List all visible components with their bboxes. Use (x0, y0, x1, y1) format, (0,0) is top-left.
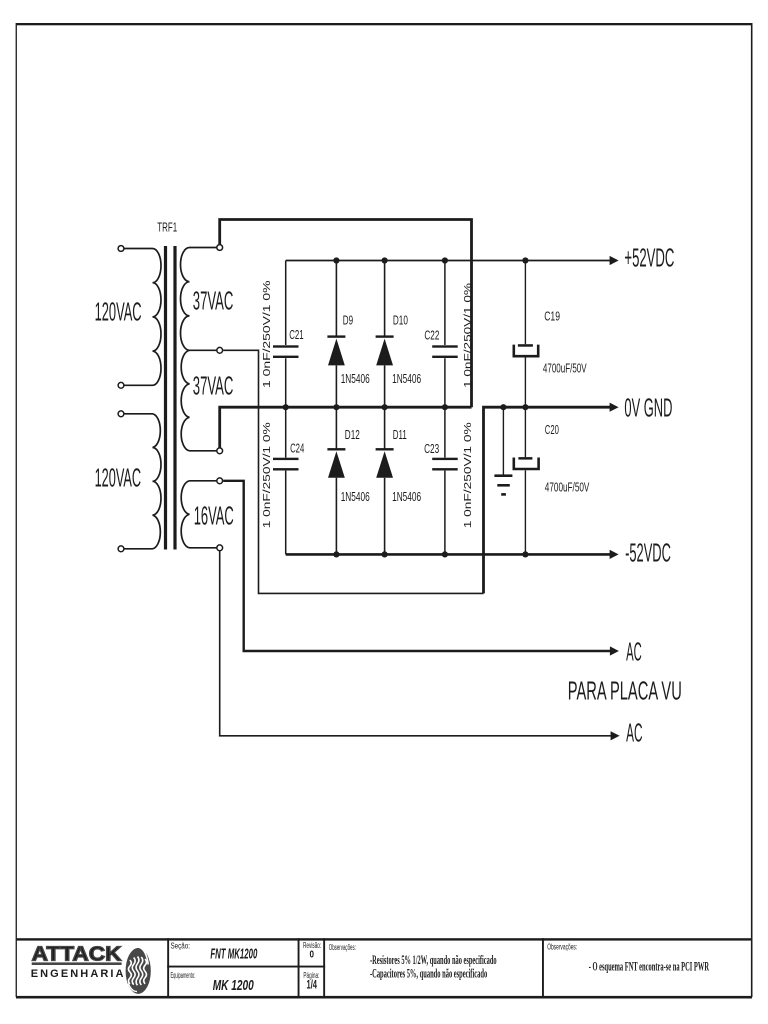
wire: 0V GND rail (484, 407, 611, 593)
svg-text:Equipamento:: Equipamento: (171, 971, 196, 980)
junction dots top rail (283, 257, 529, 557)
svg-text:120VAC: 120VAC (95, 464, 142, 492)
svg-text:-Capacitores 5%, quando não es: -Capacitores 5%, quando não especificado (370, 967, 487, 981)
svg-text:1N5406: 1N5406 (392, 489, 421, 504)
transformer TRF1 (124, 246, 216, 550)
svg-text:D11: D11 (393, 427, 407, 442)
diode D11 (384, 407, 386, 554)
svg-text:- O esquema FNT encontra-se na: - O esquema FNT encontra-se na PCI PWR (589, 959, 710, 973)
diode D9 (335, 261, 337, 408)
svg-text:37VAC: 37VAC (193, 373, 234, 401)
diode D10 (384, 261, 386, 408)
svg-text:D9: D9 (343, 313, 353, 328)
terminal circles (118, 245, 223, 552)
wire: center tap to 0V return (223, 350, 483, 593)
svg-text:TRF1: TRF1 (157, 219, 177, 234)
svg-text:+52VDC: +52VDC (624, 245, 674, 273)
svg-text:1 0nF/250V/1 0%: 1 0nF/250V/1 0% (463, 422, 474, 528)
svg-text:C20: C20 (545, 422, 559, 437)
svg-text:16VAC: 16VAC (194, 503, 234, 531)
svg-text:C24: C24 (290, 440, 304, 455)
logo ellipse with sound waves (126, 947, 151, 994)
svg-text:1/4: 1/4 (307, 980, 318, 992)
secondary winding 2 (37VAC) (181, 350, 216, 451)
arrow +52VDC (610, 256, 619, 265)
title block frame (16, 938, 752, 940)
svg-text:120VAC: 120VAC (95, 299, 142, 327)
capacitor C23 plates (432, 458, 458, 460)
arrow AC 2 (611, 731, 620, 740)
primary winding 1 (120VAC) (124, 249, 161, 386)
capacitor C22 column wire (444, 261, 446, 408)
svg-text:C21: C21 (289, 327, 303, 342)
svg-text:-52VDC: -52VDC (625, 540, 671, 568)
svg-text:PARA PLACA VU: PARA PLACA VU (568, 678, 682, 706)
junction dots bottom rail (333, 551, 339, 557)
svg-text:C19: C19 (544, 309, 560, 324)
wire: loop from secondary top terminal over to bridge AC node (220, 220, 472, 408)
junction dots 0V rail (500, 404, 506, 410)
ATTACK logo underline (32, 962, 122, 965)
secondary winding 3 (16VAC) (181, 481, 216, 548)
capacitor C20 (electrolytic) (514, 407, 539, 554)
svg-text:MK 1200: MK 1200 (213, 978, 255, 994)
svg-text:0: 0 (310, 948, 315, 960)
svg-text:Observações:: Observações: (547, 943, 577, 952)
capacitor C24 column wire (285, 407, 287, 554)
primary winding 2 (120VAC) (124, 414, 161, 549)
svg-text:Observações:: Observações: (329, 943, 356, 952)
svg-text:1N5406: 1N5406 (392, 371, 421, 386)
core (164, 246, 167, 550)
svg-text:1 0nF/250V/1 0%: 1 0nF/250V/1 0% (262, 422, 273, 528)
ground symbol (494, 407, 512, 496)
svg-text:FNT MK1200: FNT MK1200 (210, 946, 257, 962)
capacitor C22 plates (432, 345, 458, 347)
svg-text:1N5406: 1N5406 (341, 489, 370, 504)
wire: +52VDC top rail (286, 260, 610, 262)
secondary winding 1 (37VAC) (180, 248, 216, 351)
arrow -52VDC (610, 550, 619, 559)
svg-text:1 0nF/250V/1 0%: 1 0nF/250V/1 0% (262, 281, 273, 389)
arrow AC 1 (610, 646, 619, 655)
svg-text:1N5406: 1N5406 (341, 371, 370, 386)
svg-text:D12: D12 (345, 427, 360, 442)
arrow 0V GND (610, 403, 619, 412)
svg-text:37VAC: 37VAC (193, 288, 234, 316)
svg-text:C22: C22 (424, 328, 439, 343)
capacitor C19 (electrolytic) (514, 261, 538, 408)
wire: 16VAC top to AC output 1 (223, 481, 610, 651)
capacitor C21 column wire (285, 261, 287, 408)
capacitor C21 plates (273, 345, 299, 347)
svg-text:4700uF/50V: 4700uF/50V (543, 361, 587, 376)
wire: AC mid rail of bridge (220, 407, 472, 448)
svg-text:-Resistores 5% 1/2W, quando nã: -Resistores 5% 1/2W, quando não especifi… (370, 953, 497, 967)
svg-text:C23: C23 (424, 441, 439, 456)
junction dots mid rail (283, 404, 289, 410)
diode D12 (335, 407, 337, 554)
wire: 16VAC bottom to AC output 2 (220, 551, 611, 736)
capacitor C24 plates (273, 458, 299, 460)
svg-text:Seção:: Seção: (171, 942, 191, 951)
svg-text:AC: AC (626, 720, 642, 748)
capacitor C23 column wire (444, 407, 446, 554)
svg-text:1 0nF/250V/1 0%: 1 0nF/250V/1 0% (463, 283, 474, 388)
wire: -52VDC bottom rail (286, 553, 610, 556)
svg-text:D10: D10 (393, 313, 408, 328)
svg-text:0V GND: 0V GND (624, 395, 672, 423)
svg-text:AC: AC (626, 639, 642, 667)
svg-text:ENGENHARIA: ENGENHARIA (31, 968, 124, 980)
svg-text:4700uF/50V: 4700uF/50V (545, 479, 590, 494)
svg-text:ATTACK: ATTACK (32, 943, 122, 966)
